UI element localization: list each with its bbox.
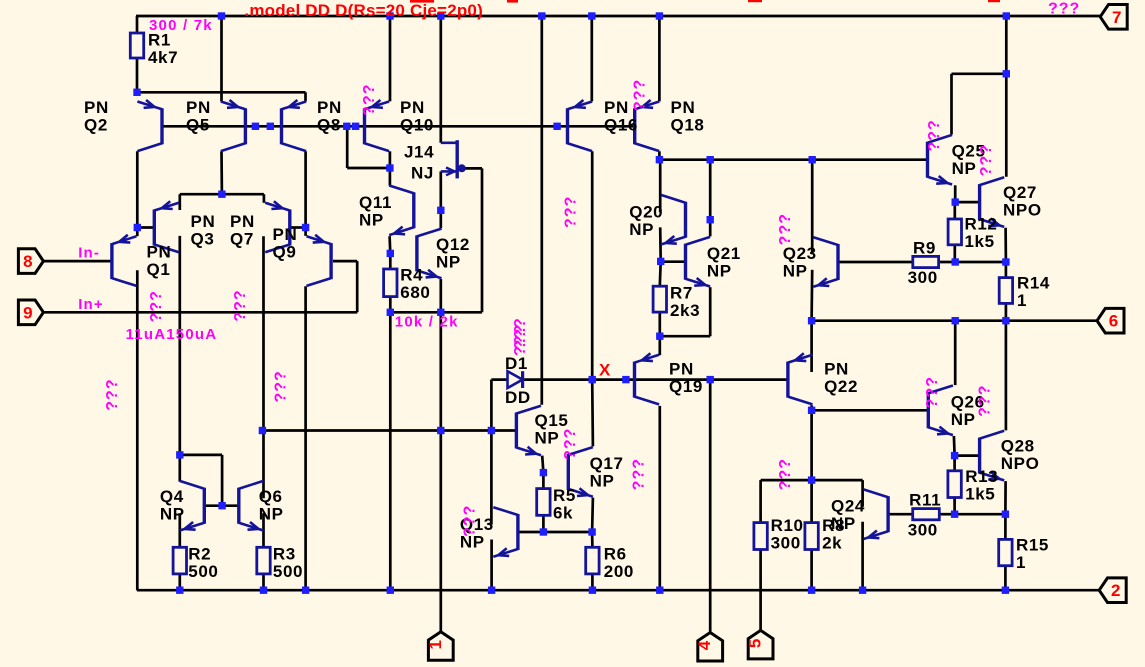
svg-text:Q6: Q6 — [259, 487, 283, 506]
svg-text:R12: R12 — [965, 214, 998, 233]
label Q11 — [359, 193, 392, 230]
svg-text:R5: R5 — [553, 486, 576, 505]
svg-text:PN: PN — [147, 242, 172, 261]
junction Q25 emitter-R12 — [952, 198, 959, 205]
text clipped model line above — [410, 0, 1000, 3]
resistor R6 — [586, 547, 599, 574]
svg-text:???: ??? — [777, 213, 794, 245]
wire bus to J14 drain — [439, 16, 442, 143]
wire Q10 base tie drop — [346, 126, 349, 168]
label ??? Q1 collector — [104, 378, 121, 410]
label ??? Q7 — [232, 289, 249, 321]
wire Q4 emitter to R2 — [178, 513, 181, 547]
resistor R1 — [130, 33, 143, 58]
resistor R3 — [257, 547, 270, 574]
wire Q8 collector down — [304, 151, 307, 236]
wire J14 source lead — [462, 167, 482, 170]
svg-text:R14: R14 — [1017, 273, 1050, 292]
svg-text:Q2: Q2 — [84, 115, 108, 134]
svg-text:300 / 7k: 300 / 7k — [149, 17, 213, 34]
wire In+ to Q9 base — [333, 260, 357, 263]
wire J14 source drop — [481, 168, 484, 312]
wire Q23 collector riser — [811, 160, 814, 255]
svg-text:500: 500 — [188, 562, 218, 581]
wire R14 bottom — [1005, 303, 1008, 320]
transistor Q9 — [307, 235, 332, 286]
wire R1 bottom to node — [136, 58, 139, 92]
junction rail R8 — [808, 587, 815, 594]
label R9 — [913, 238, 936, 257]
label J14 — [404, 143, 434, 162]
wire ground rail — [137, 589, 1099, 592]
svg-text:Q5: Q5 — [186, 115, 210, 134]
svg-text:NP: NP — [951, 410, 976, 429]
label Q4 — [160, 487, 185, 523]
wire bus to Q18 emitter — [658, 16, 661, 101]
wire R14 top — [1005, 262, 1008, 278]
label Q10 — [400, 98, 434, 134]
junction base line e — [553, 123, 560, 130]
wire Q24 collector drop — [861, 480, 864, 507]
svg-text:R6: R6 — [604, 545, 627, 564]
wire Q19 collector to rail — [658, 406, 661, 590]
label R15 value — [1016, 535, 1049, 572]
wire Q4 base drop — [221, 455, 224, 506]
svg-text:500: 500 — [273, 562, 303, 581]
svg-text:R4: R4 — [400, 265, 423, 284]
junction Q8 collector node — [302, 224, 309, 231]
wire Q6 emitter to R3 — [262, 513, 265, 547]
label Q23 — [783, 244, 817, 281]
label In- — [78, 245, 100, 262]
svg-text:???: ??? — [562, 428, 579, 460]
wire R10 top drop — [759, 480, 762, 522]
text model statement — [244, 1, 483, 20]
junction tail node — [218, 191, 225, 198]
label ??? Q9 emitter — [273, 370, 290, 402]
wire Q22 collector riser — [810, 321, 813, 372]
junction Q28 emitter node — [1002, 511, 1009, 518]
junction Q22 emitter-Q26 base — [808, 407, 815, 414]
svg-text:PN: PN — [317, 98, 342, 117]
wire Q20 base drop — [709, 160, 712, 237]
wire Q26 emitter drop — [953, 436, 956, 456]
wire R11 right — [939, 513, 954, 516]
wire port4 drop — [709, 380, 712, 633]
svg-text:NP: NP — [952, 159, 977, 178]
junction R13 bottom node — [951, 511, 958, 518]
svg-text:PN: PN — [273, 225, 298, 244]
svg-text:Q23: Q23 — [783, 244, 817, 263]
junction rail R4 — [387, 587, 394, 594]
port 2 V- — [1099, 578, 1126, 603]
transistor Q16 — [568, 100, 593, 151]
svg-text:???: ??? — [562, 196, 579, 228]
wire base line mirror chain — [162, 125, 635, 128]
svg-text:Q1: Q1 — [147, 260, 171, 279]
svg-text:X: X — [599, 361, 611, 380]
label ??? Q17 collector — [562, 428, 579, 460]
transistor Q19 — [635, 353, 660, 404]
wire Q2 emitter rail y92 — [137, 91, 306, 94]
label R14 value — [1017, 273, 1050, 310]
junction Q26 emitter-R13 — [951, 452, 958, 459]
wire Q23 emitter drop — [810, 270, 813, 321]
svg-text:R8: R8 — [822, 516, 845, 535]
label R12 value — [965, 214, 998, 251]
svg-text:1k5: 1k5 — [965, 485, 995, 504]
svg-text:7: 7 — [1112, 8, 1121, 27]
label ??? Q1 — [148, 290, 165, 322]
transistor Q3 — [154, 201, 179, 252]
svg-text:PN: PN — [669, 359, 694, 378]
transistor Q27 — [980, 177, 1005, 227]
resistor R11 — [913, 509, 940, 520]
junction rail Q24 — [859, 587, 866, 594]
wire R5 top — [542, 473, 545, 489]
label R2 value — [188, 545, 218, 582]
label ??? Q26 — [924, 376, 941, 408]
wire D1 anode lead — [491, 378, 507, 381]
label ??? Q23 — [777, 213, 794, 245]
junction output-Q23 — [808, 317, 815, 324]
transistor Q24 — [864, 489, 889, 539]
svg-text:1: 1 — [1017, 291, 1027, 310]
svg-text:R10: R10 — [771, 516, 804, 535]
svg-text:Q15: Q15 — [535, 411, 569, 430]
transistor Q10 — [365, 100, 390, 151]
label Q16 — [604, 98, 638, 134]
wire R4 top — [389, 253, 392, 269]
junction Q11 emitter-Q12 base — [387, 250, 394, 257]
junction R6 top — [588, 528, 595, 535]
junction bus-Q16 — [588, 12, 595, 19]
transistor Q23 — [813, 237, 838, 287]
junction rail Q13 — [488, 587, 495, 594]
svg-text:PN: PN — [186, 98, 211, 117]
svg-text:R7: R7 — [670, 284, 693, 303]
svg-text:Q28: Q28 — [1001, 436, 1035, 455]
wire bus to Q15 collector (long) — [540, 16, 543, 405]
label Q6 — [259, 487, 284, 523]
wire Q27 base stub — [955, 201, 979, 204]
label D1 — [505, 354, 528, 373]
label Q2 — [84, 98, 109, 134]
svg-text:11uA150uA: 11uA150uA — [126, 326, 218, 343]
junction bus-Q5 — [218, 12, 225, 19]
svg-text:???: ??? — [512, 317, 529, 349]
wire Q1 collector to rail — [136, 270, 139, 590]
wire Q24 base to R11 — [890, 513, 913, 516]
transistor Q1 — [112, 235, 137, 286]
wire J14 gate down — [439, 171, 442, 228]
svg-text:Q8: Q8 — [317, 115, 341, 134]
svg-text:Q24: Q24 — [831, 497, 865, 516]
label Q24 — [831, 497, 865, 534]
svg-text:???: ??? — [1048, 1, 1080, 18]
wire Q12 emitter down to port1 — [439, 279, 442, 632]
node X label — [599, 361, 611, 380]
resistor R10 — [754, 523, 767, 550]
junction Q25 collector node — [1003, 70, 1010, 77]
label Q3 — [191, 212, 216, 249]
resistor R13 — [948, 471, 961, 498]
svg-text:Q19: Q19 — [669, 377, 703, 396]
port 4 comp — [695, 633, 722, 662]
label R6 value — [604, 545, 634, 582]
label Q20 — [629, 202, 663, 239]
label ??? Q25 — [926, 119, 943, 151]
wire R12 top — [953, 202, 956, 219]
junction base line b — [267, 123, 274, 130]
wire port9 In+ lead — [43, 311, 357, 314]
transistor Q13 — [493, 507, 518, 557]
wire top V+ bus — [136, 15, 1100, 18]
wire bus to Q5 emitter — [220, 16, 223, 101]
wire mirror node y262 — [955, 261, 1006, 264]
label ??? R14 line — [977, 385, 994, 417]
label Q8 — [317, 98, 342, 134]
wire R6 bottom — [591, 574, 594, 590]
wire In+ riser — [356, 261, 359, 312]
label NJ — [411, 164, 434, 183]
junction R7 bottom — [656, 333, 663, 340]
wire Q7 emitter riser — [263, 194, 266, 203]
svg-text:R2: R2 — [188, 545, 211, 564]
wire Q13 emitter to rail — [490, 540, 493, 591]
wire Q3 collector down — [178, 236, 181, 482]
svg-text:???: ??? — [978, 144, 995, 176]
svg-text:Q21: Q21 — [707, 244, 741, 263]
svg-text:1: 1 — [1016, 553, 1026, 572]
svg-text:???: ??? — [631, 458, 648, 490]
svg-text:4: 4 — [695, 640, 714, 650]
svg-text:1: 1 — [426, 640, 445, 649]
junction bus-Q18 — [656, 12, 663, 19]
transistor Q4 — [180, 481, 205, 531]
junction R5 bottom — [540, 528, 547, 535]
port 7 V+ — [1100, 5, 1127, 30]
junction bus-Q15 — [538, 12, 545, 19]
wire bal node horizontal — [761, 479, 863, 482]
label Q15 — [535, 411, 569, 448]
junction bus-Q10 — [386, 12, 393, 19]
svg-text:NP: NP — [629, 220, 654, 239]
svg-text:9: 9 — [23, 303, 32, 322]
junction bus-J14 — [437, 12, 444, 19]
port 5 balance — [746, 630, 773, 659]
svg-text:PN: PN — [230, 212, 255, 231]
junction y312-port1 — [437, 309, 444, 316]
transistor Q20 — [661, 195, 686, 245]
wire Q27 emitter drop — [1004, 228, 1007, 262]
transistor Q18 — [635, 100, 660, 151]
svg-text:Q22: Q22 — [824, 377, 858, 396]
wire R15 top — [1004, 514, 1007, 539]
svg-text:Q20: Q20 — [629, 202, 663, 221]
wire Q17 collector to X — [591, 380, 594, 447]
svg-text:???: ??? — [232, 289, 249, 321]
wire Q4 collector-base tie horiz — [180, 454, 222, 457]
label 11uA 150uA — [126, 326, 218, 343]
svg-text:PN: PN — [604, 98, 629, 117]
wire R9 right — [939, 261, 956, 264]
label Q22 — [824, 359, 858, 396]
svg-text:NPO: NPO — [1001, 454, 1040, 473]
wire R12 bottom — [953, 245, 956, 262]
junction Q20 emitter-R7 — [657, 258, 664, 265]
wire output to Q28 collector — [1005, 321, 1008, 431]
wire X node line — [523, 378, 788, 381]
label Q27 — [1003, 183, 1042, 220]
wire Q23 base to R9 — [839, 261, 913, 264]
wire Q24 emitter to rail — [861, 522, 864, 590]
svg-text:Q17: Q17 — [590, 454, 624, 473]
wire Q25 emitter drop — [954, 185, 957, 202]
wire Q20 emitter drop — [659, 227, 662, 261]
svg-text:???: ??? — [462, 505, 479, 537]
svg-text:Q10: Q10 — [400, 115, 434, 134]
svg-text:Q7: Q7 — [230, 229, 254, 248]
wire Q8 emitter drop — [304, 92, 307, 101]
port 9 In+ — [18, 300, 43, 325]
label ??? top right — [1048, 1, 1080, 18]
label R1 value — [148, 31, 178, 68]
junction R4 bottom — [387, 309, 394, 316]
label R8 value — [822, 516, 845, 553]
junction Q20 base — [707, 216, 714, 223]
label ??? Q16 collector — [562, 196, 579, 228]
svg-text:???: ??? — [777, 458, 794, 490]
resistor R7 — [653, 286, 666, 312]
svg-text:NP: NP — [359, 210, 384, 229]
wire Q4-Q6 base line — [204, 504, 239, 507]
svg-text:300: 300 — [908, 521, 938, 540]
svg-text:4k7: 4k7 — [148, 48, 178, 67]
junction Q2 collector node — [134, 224, 141, 231]
svg-text:Q18: Q18 — [671, 115, 705, 134]
svg-text:???: ??? — [104, 378, 121, 410]
resistor R14 — [999, 278, 1012, 304]
transistor Q7 — [265, 201, 290, 252]
resistor R2 — [173, 547, 186, 574]
wire Q28 base stub — [955, 454, 980, 457]
junction output-Q26 — [952, 317, 959, 324]
wire Q21 emitter horiz — [660, 335, 710, 338]
wire Q7 collector down — [262, 236, 265, 498]
label R5 value — [553, 486, 576, 523]
resistor R15 — [999, 539, 1012, 565]
label ??? Q18 — [632, 79, 649, 111]
label Q17 — [590, 454, 624, 491]
junction output-R14 — [1002, 317, 1009, 324]
junction X-Q19 base — [622, 376, 629, 383]
junction rail Q9 — [302, 587, 309, 594]
junction R1-Q2 emitter — [133, 89, 140, 96]
transistor Q8 — [282, 100, 307, 151]
svg-text:???: ??? — [273, 370, 290, 402]
wire Q13 base line — [518, 531, 592, 534]
resistor R12 — [948, 219, 961, 245]
junction R9-R12 — [952, 258, 959, 265]
wire R10 bottom to port5 — [759, 550, 762, 631]
wire R2 bottom — [178, 574, 181, 590]
wire R3 bottom — [262, 574, 265, 590]
wire R1 top — [136, 16, 139, 33]
label Q9 — [273, 225, 298, 262]
svg-text:2k3: 2k3 — [670, 301, 700, 320]
port 8 In- — [18, 249, 43, 274]
wire port8 In- lead — [43, 260, 112, 263]
label Q28 — [1001, 436, 1040, 473]
label Q21 — [707, 244, 741, 281]
junction rail R15 — [1002, 587, 1009, 594]
svg-text:Q16: Q16 — [604, 115, 638, 134]
junction comp-port1 — [437, 427, 444, 434]
label Q19 — [669, 359, 703, 396]
label Q13 — [460, 515, 494, 552]
wire Q11 emitter drop — [388, 236, 391, 253]
label ??? Q10 — [361, 84, 378, 116]
transistor Q17 — [568, 447, 593, 497]
transistor Q26 — [928, 386, 953, 436]
wire Q21 emitter drop — [709, 287, 712, 336]
wire R7 top — [658, 261, 662, 286]
svg-text:R11: R11 — [909, 491, 941, 510]
junction Q4 base — [218, 502, 225, 509]
svg-text:R13: R13 — [965, 467, 998, 486]
wire node to R15 — [955, 513, 1006, 516]
svg-text:NP: NP — [707, 261, 732, 280]
svg-text:PN: PN — [824, 359, 849, 378]
wire Q10 tie horizontal — [347, 167, 390, 170]
wire Q28 emitter drop — [1004, 481, 1007, 514]
label 10k/2k — [395, 314, 459, 331]
transistor Q11 — [389, 186, 414, 236]
svg-text:NJ: NJ — [411, 164, 434, 183]
junction X node — [589, 376, 596, 383]
svg-text:In-: In- — [78, 245, 100, 262]
label ??? Q13 — [462, 505, 479, 537]
svg-text:8: 8 — [23, 252, 32, 271]
wire Q1 emitter up seg — [136, 228, 139, 237]
junction rail R3 — [260, 587, 267, 594]
wire output line — [812, 319, 1097, 322]
label 300/7k — [149, 17, 213, 34]
svg-text:NP: NP — [535, 428, 560, 447]
svg-text:Q11: Q11 — [359, 193, 392, 212]
junction Q11 base — [437, 207, 444, 214]
wire current-set horizontal y312 — [390, 311, 482, 314]
wire Q25 collector horiz — [952, 72, 1007, 75]
svg-text:Q27: Q27 — [1003, 183, 1037, 202]
svg-text:NPO: NPO — [1003, 200, 1042, 219]
label ??? Q22 emitter — [777, 458, 794, 490]
transistor Q2 — [137, 100, 162, 151]
junction Q10 tie — [386, 164, 393, 171]
wire Q3 base stub — [137, 226, 154, 229]
diode D1 — [508, 371, 523, 388]
svg-text:Q9: Q9 — [273, 242, 297, 261]
wire Q19 emitter riser — [658, 336, 661, 355]
svg-text:2: 2 — [1111, 581, 1120, 600]
svg-text:NP: NP — [783, 261, 808, 280]
label DD — [505, 388, 531, 407]
label Q5 — [186, 98, 211, 134]
svg-text:NP: NP — [436, 252, 461, 271]
svg-text:Q12: Q12 — [436, 235, 470, 254]
label R13 value — [965, 467, 998, 504]
